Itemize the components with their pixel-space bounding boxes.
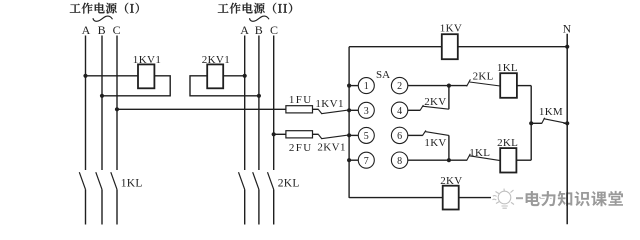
svg-text:2KL: 2KL (278, 177, 300, 189)
contact 1KV1 tick (318, 110, 322, 114)
wire phase A source I upper (85, 36, 87, 171)
wire riser row4 to row2 (448, 86, 450, 110)
wire bus to SA contact 5 (349, 134, 358, 136)
node bus row5 (347, 133, 351, 137)
switch SA contact 2 (391, 77, 407, 93)
contact 2KV blade (422, 106, 449, 109)
relay coil 1KV1 (138, 64, 154, 88)
wire phase B source I upper (101, 36, 103, 171)
contact 1KM blade (544, 119, 565, 123)
contact 1KL blade phase C source I (111, 172, 117, 189)
contact 1KL blade phase B source I (96, 172, 102, 189)
node row2 junction (447, 84, 451, 88)
node A(II) tap (243, 74, 247, 78)
fuse 1FU (286, 106, 313, 113)
switch SA contact 6 (391, 127, 407, 143)
switch SA contact 7 (358, 152, 374, 168)
wire phase A source I lower (85, 190, 87, 225)
contact 2KL blade phase A source II (239, 172, 245, 189)
contact 2KV tick (420, 105, 423, 110)
switch SA contact 4 (391, 102, 407, 118)
wire 2FU to contact 2KV1 (313, 133, 319, 135)
brace under source I title (93, 16, 113, 21)
bottom rail to 2KV coil (349, 197, 443, 199)
node N bottom rail (565, 196, 569, 200)
wire phase B source II lower (258, 190, 260, 225)
wire bus to SA contact 1 (349, 85, 358, 87)
node riser 1KM tap (529, 121, 533, 125)
svg-text:2FU: 2FU (289, 142, 313, 154)
wire 1KL coil to right riser (517, 85, 531, 87)
contact 2KL blade phase B source II (253, 172, 259, 189)
wire phase A source II lower (244, 190, 246, 225)
wire C(II) to fuse 2FU (274, 133, 286, 135)
wire 2KV1 coil to A(II) (223, 75, 245, 77)
wire right riser row2-row8 (530, 86, 532, 161)
svg-text:C: C (113, 23, 121, 37)
relay coil 1KL (500, 73, 517, 98)
contact 1KL tick (467, 154, 471, 161)
contact 2KL blade phase C source II (268, 172, 274, 189)
watermark text 电力知识课堂 (526, 191, 623, 206)
wire A(I) to 1KV1 coil (86, 75, 139, 77)
relay coil 2KV (443, 186, 459, 210)
top rail 1KV coil to N (458, 46, 567, 48)
svg-text:1KL: 1KL (121, 177, 143, 189)
node C(I) tap (115, 107, 119, 111)
svg-text:1KV: 1KV (424, 137, 446, 149)
wire 2KL coil to right riser (516, 159, 531, 161)
node bus row1 (347, 84, 351, 88)
wire SA4 to 2KV contact (408, 109, 420, 111)
brace under source II title (250, 16, 270, 21)
svg-text:4: 4 (397, 106, 402, 117)
contact 2KL tick (467, 79, 471, 86)
contact 1KM tick (542, 118, 545, 124)
node N top rail (565, 45, 569, 49)
svg-text:3: 3 (364, 106, 369, 117)
label: working power source I title (70, 3, 139, 14)
node C(II) tap (272, 132, 276, 136)
svg-text:A: A (240, 23, 249, 37)
svg-text:7: 7 (364, 156, 369, 167)
node N 1KM (565, 121, 569, 125)
svg-text:5: 5 (364, 131, 369, 142)
wire riser to 1KM contact (531, 122, 542, 124)
wire 1KM to N (564, 122, 568, 124)
svg-text:2KL: 2KL (473, 70, 494, 82)
svg-text:2KL: 2KL (497, 137, 518, 149)
switch SA contact 8 (391, 152, 407, 168)
wire SA6 to 1KV contact (408, 134, 423, 136)
bus vertical left (348, 47, 350, 198)
watermark light bulb icon (493, 189, 515, 209)
svg-text:B: B (255, 23, 263, 37)
wire phase C source II upper (273, 36, 275, 171)
watermark halo block (491, 190, 527, 207)
svg-text:8: 8 (397, 156, 402, 167)
contact 2KV1 blade (321, 135, 349, 139)
wire SA8 to 1KL contact (408, 159, 467, 161)
relay coil 2KV1 (207, 64, 223, 88)
wire phase B source II upper (258, 36, 260, 171)
wire 1KV1 coil to B(I) (102, 76, 170, 96)
wire SA2 to 2KL contact (408, 85, 467, 87)
watermark text halo (526, 191, 623, 206)
svg-text:C: C (270, 23, 278, 37)
wire neutral N vertical (566, 34, 568, 224)
relay coil 2KL (500, 148, 516, 172)
contact 1KV1 blade (321, 110, 349, 114)
wire phase B source I lower (101, 190, 103, 225)
node B(II) tap (257, 94, 261, 98)
svg-text:1: 1 (364, 81, 369, 92)
wire phase C source I lower (116, 190, 118, 225)
contact 2KL blade (470, 82, 501, 86)
wire 2KV1 coil to B(II) (190, 76, 259, 96)
watermark dash (516, 197, 523, 199)
switch SA contact 5 (358, 127, 374, 143)
svg-text:1KL: 1KL (469, 147, 490, 159)
top rail to 1KV coil (349, 46, 442, 48)
wire phase C source I upper (116, 36, 118, 171)
wire phase A source II upper (244, 36, 246, 171)
node A(I) tap (83, 74, 87, 78)
fuse 2FU (286, 131, 313, 138)
bottom rail 2KV coil to N (459, 197, 568, 199)
wire 1FU to contact 1KV1 (313, 108, 319, 110)
svg-text:2: 2 (397, 81, 402, 92)
wire bus to SA contact 3 (349, 109, 358, 111)
svg-text:B: B (98, 23, 106, 37)
svg-text:2KV1: 2KV1 (317, 142, 346, 154)
svg-text:6: 6 (397, 131, 402, 142)
wire C(I) to fuse 1FU (117, 108, 286, 110)
svg-text:SA: SA (376, 69, 390, 81)
svg-text:1KV1: 1KV1 (315, 98, 344, 110)
contact 1KV tick (423, 130, 426, 135)
svg-text:1KL: 1KL (497, 62, 518, 74)
switch SA contact 3 (358, 102, 374, 118)
contact 2KV1 tick (318, 135, 322, 139)
node bus row3 (347, 108, 351, 112)
wire bus to SA contact 7 (349, 159, 358, 161)
svg-text:1KV: 1KV (440, 23, 462, 35)
switch SA contact 1 (358, 78, 374, 94)
contact 1KL blade phase A source I (79, 172, 85, 189)
contact 1KL blade (469, 156, 500, 161)
wire riser row6 to row8 (448, 135, 450, 160)
svg-text:A: A (82, 23, 91, 37)
wire phase C source II lower (273, 190, 275, 225)
contact 1KV blade (425, 132, 449, 136)
node row8 junction (447, 158, 451, 162)
relay coil 1KV (442, 34, 458, 59)
node bus row7 (347, 158, 351, 162)
svg-text:2KV: 2KV (424, 96, 446, 108)
label: working power source II title (218, 3, 292, 14)
node B(I) tap (100, 94, 104, 98)
svg-text:1KM: 1KM (539, 106, 563, 118)
svg-text:1FU: 1FU (289, 94, 313, 106)
